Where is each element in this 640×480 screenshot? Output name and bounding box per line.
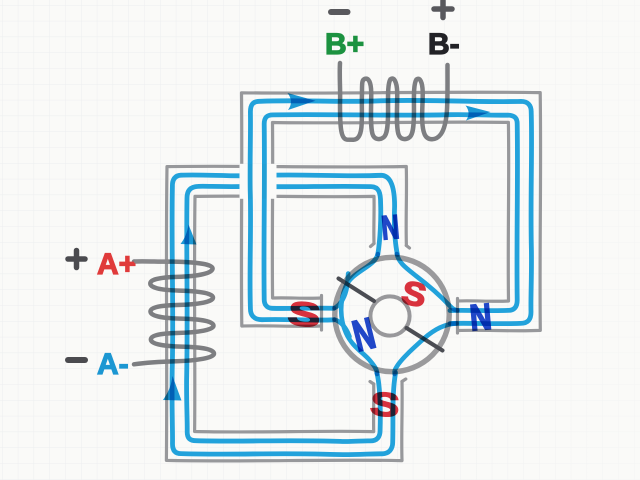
flux left pole upper merge xyxy=(335,274,349,309)
top pole shoe flares xyxy=(371,244,410,249)
white crossing window xyxy=(240,164,277,199)
flux B outer line xyxy=(250,100,532,323)
minus sign above B+ xyxy=(331,9,348,15)
svg-text:A+: A+ xyxy=(97,248,136,281)
core A outer wall xyxy=(166,166,406,461)
flux rotor lower-right sweep (right pole to bottom pole) xyxy=(394,323,456,374)
minus sign left of A- xyxy=(68,357,85,363)
rotor diagonal lower-right xyxy=(407,328,443,351)
arrow B top outer xyxy=(288,93,316,110)
core B inner wall xyxy=(272,122,508,301)
flux B inner line xyxy=(264,115,518,311)
flux rotor upper-right sweep (top pole to right pole) xyxy=(397,254,458,310)
svg-text:S: S xyxy=(286,294,322,335)
plus sign above B- xyxy=(434,1,452,18)
rotor shaft hole xyxy=(370,296,409,335)
rotor diagonal upper-left xyxy=(339,279,375,302)
coil A (left, wraps core A left bar) xyxy=(134,261,214,364)
plus sign left of A+ xyxy=(68,251,85,268)
svg-text:S: S xyxy=(369,386,401,425)
core B right pole face xyxy=(456,299,459,334)
svg-text:B+: B+ xyxy=(325,28,364,61)
bottom pole shoe flares xyxy=(370,379,406,384)
lead A+ xyxy=(136,260,167,264)
coil B (top, wraps core B top bar) xyxy=(340,63,448,140)
svg-text:N: N xyxy=(468,297,493,339)
core B outer wall xyxy=(241,92,540,331)
arrow B top inner xyxy=(466,106,491,121)
flux left pole lower merge xyxy=(335,320,350,337)
svg-text:N: N xyxy=(380,208,401,247)
flux A inner line xyxy=(187,186,381,441)
core B left pole face xyxy=(320,296,323,331)
arrow A left outer (up) xyxy=(163,376,182,401)
core A inner wall xyxy=(195,196,375,432)
flux A outer line xyxy=(172,175,397,455)
svg-text:A-: A- xyxy=(97,348,129,381)
arrow A left inner (up) xyxy=(181,225,197,245)
svg-text:B-: B- xyxy=(428,28,460,61)
rotor ring xyxy=(335,257,449,371)
flux rotor left sweep (top pole to bottom pole) xyxy=(341,254,378,374)
